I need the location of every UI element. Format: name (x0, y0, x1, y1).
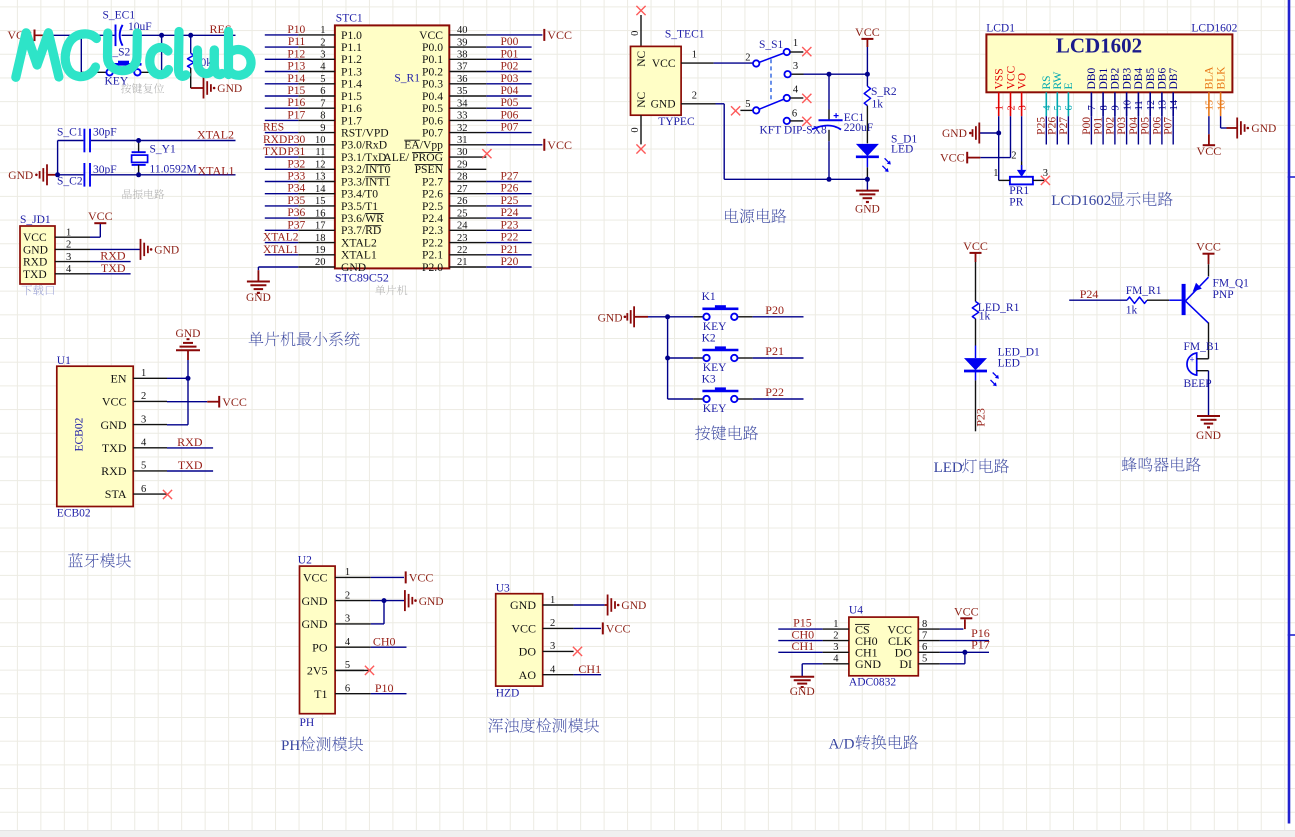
svg-text:P15: P15 (287, 85, 305, 97)
svg-text:2: 2 (833, 630, 838, 641)
svg-text:1: 1 (320, 25, 325, 36)
svg-text:P04: P04 (501, 85, 519, 97)
svg-text:U1: U1 (57, 355, 71, 367)
svg-text:PR1: PR1 (1009, 185, 1029, 197)
svg-text:TYPEC: TYPEC (658, 116, 695, 128)
svg-text:P1.4: P1.4 (341, 78, 362, 91)
svg-text:P07: P07 (1163, 117, 1175, 135)
svg-text:P06: P06 (501, 109, 519, 121)
svg-text:P1.7: P1.7 (341, 114, 362, 127)
svg-text:7: 7 (320, 98, 325, 109)
svg-text:5: 5 (320, 74, 325, 85)
svg-text:3: 3 (793, 61, 798, 72)
svg-text:P12: P12 (287, 48, 305, 60)
svg-text:GND: GND (154, 245, 179, 257)
svg-text:P3.4/T0: P3.4/T0 (341, 188, 378, 201)
svg-text:XTAL1: XTAL1 (341, 249, 377, 262)
svg-text:P2.2: P2.2 (422, 237, 443, 250)
svg-text:P0.1: P0.1 (422, 53, 443, 66)
svg-text:S_EC1: S_EC1 (103, 10, 136, 22)
svg-text:33: 33 (457, 111, 468, 122)
svg-text:RXD: RXD (101, 464, 127, 478)
svg-text:26: 26 (457, 196, 468, 207)
svg-text:36: 36 (457, 74, 468, 85)
svg-text:DB6: DB6 (1157, 68, 1169, 90)
svg-text:RST/VPD: RST/VPD (341, 127, 389, 140)
svg-text:P32: P32 (287, 158, 305, 170)
svg-text:P35: P35 (287, 195, 305, 207)
svg-text:LED: LED (998, 358, 1020, 370)
svg-text:29: 29 (457, 160, 468, 171)
svg-text:VCC: VCC (606, 622, 631, 636)
svg-text:P3.2/INT0: P3.2/INT0 (341, 163, 390, 176)
svg-text:P04: P04 (1128, 117, 1140, 135)
svg-text:P2.5: P2.5 (422, 200, 443, 213)
svg-text:FM_B1: FM_B1 (1184, 341, 1220, 353)
svg-text:18: 18 (315, 233, 326, 244)
svg-text:9: 9 (1111, 105, 1122, 110)
svg-text:1: 1 (141, 368, 146, 379)
svg-text:GND: GND (621, 600, 646, 612)
svg-text:38: 38 (457, 50, 468, 61)
svg-text:P17: P17 (971, 638, 990, 652)
svg-text:P20: P20 (765, 303, 784, 317)
svg-text:RXD: RXD (177, 435, 203, 449)
svg-text:7: 7 (1087, 105, 1098, 110)
svg-text:VCC: VCC (419, 29, 443, 42)
svg-text:BLK: BLK (1215, 66, 1227, 90)
svg-text:ALE/ PROG: ALE/ PROG (383, 151, 443, 164)
svg-text:22: 22 (457, 245, 468, 256)
svg-text:P14: P14 (287, 73, 305, 85)
svg-text:GND: GND (176, 328, 201, 340)
svg-text:LED: LED (934, 460, 963, 476)
svg-text:1: 1 (66, 227, 71, 238)
svg-text:2: 2 (692, 90, 697, 101)
svg-text:GND: GND (23, 244, 48, 256)
svg-text:1: 1 (995, 105, 1006, 110)
svg-text:P3.3/INT1: P3.3/INT1 (341, 175, 390, 188)
svg-text:DB2: DB2 (1110, 68, 1122, 90)
svg-text:17: 17 (315, 221, 326, 232)
svg-text:35: 35 (457, 86, 468, 97)
svg-text:VCC: VCC (1196, 240, 1221, 254)
svg-text:FM_R1: FM_R1 (1126, 285, 1162, 297)
svg-text:27: 27 (457, 184, 468, 195)
svg-text:P22: P22 (765, 385, 784, 399)
svg-text:GND: GND (790, 686, 815, 698)
svg-text:P2.3: P2.3 (422, 224, 443, 237)
svg-text:HZD: HZD (496, 687, 520, 699)
svg-text:RXD: RXD (263, 134, 287, 146)
svg-text:5: 5 (1053, 105, 1064, 110)
svg-text:11: 11 (1134, 100, 1145, 110)
svg-text:10: 10 (1122, 100, 1133, 111)
svg-text:VCC: VCC (102, 395, 127, 409)
svg-text:3: 3 (320, 50, 325, 61)
svg-text:P1.3: P1.3 (341, 65, 362, 78)
svg-text:XTAL2: XTAL2 (263, 232, 299, 244)
svg-text:VCC: VCC (1197, 144, 1222, 158)
svg-text:P3.1/TxD: P3.1/TxD (341, 151, 386, 164)
svg-text:VCC: VCC (409, 571, 434, 585)
svg-text:GND: GND (246, 292, 271, 304)
svg-text:P0.6: P0.6 (422, 114, 443, 127)
svg-text:2V5: 2V5 (307, 664, 328, 678)
svg-text:GND: GND (942, 128, 967, 140)
svg-text:VCC: VCC (652, 58, 676, 70)
svg-text:28: 28 (457, 172, 468, 183)
svg-text:GND: GND (1251, 123, 1276, 135)
svg-text:P2.6: P2.6 (422, 188, 443, 201)
svg-text:P1.6: P1.6 (341, 102, 362, 115)
svg-text:P20: P20 (501, 256, 519, 268)
svg-text:P10: P10 (375, 681, 394, 695)
svg-text:9: 9 (320, 123, 325, 134)
svg-text:VCC: VCC (88, 209, 113, 223)
svg-text:3: 3 (345, 614, 350, 625)
svg-text:7: 7 (922, 630, 927, 641)
svg-text:P00: P00 (1081, 117, 1093, 135)
svg-text:32: 32 (457, 123, 468, 134)
svg-text:PNP: PNP (1213, 289, 1234, 301)
svg-text:STC1: STC1 (336, 13, 363, 25)
svg-text:S_JD1: S_JD1 (20, 214, 51, 226)
svg-text:XTAL2: XTAL2 (341, 237, 377, 250)
svg-text:2: 2 (1006, 105, 1017, 110)
svg-text:3: 3 (550, 641, 555, 652)
svg-text:P1.2: P1.2 (341, 53, 362, 66)
svg-text:4: 4 (66, 264, 72, 275)
svg-text:4: 4 (141, 438, 147, 449)
svg-text:PH: PH (300, 717, 315, 729)
svg-text:GND: GND (8, 170, 33, 182)
svg-text:2: 2 (141, 391, 146, 402)
svg-text:TXD: TXD (178, 458, 203, 472)
svg-text:1: 1 (550, 595, 555, 606)
svg-text:1: 1 (692, 50, 697, 61)
svg-text:16: 16 (1216, 100, 1227, 111)
svg-text:PR: PR (1009, 197, 1023, 209)
svg-text:34: 34 (457, 98, 468, 109)
svg-text:P1.5: P1.5 (341, 90, 362, 103)
svg-text:TXD: TXD (23, 269, 47, 281)
svg-text:GND: GND (1196, 430, 1221, 442)
svg-text:S_R2: S_R2 (871, 86, 897, 98)
svg-text:8: 8 (922, 619, 927, 630)
svg-text:1k: 1k (1126, 305, 1138, 317)
svg-text:37: 37 (457, 62, 468, 73)
svg-text:2: 2 (1011, 151, 1016, 162)
svg-text:S_S1: S_S1 (759, 39, 784, 51)
svg-text:CH1: CH1 (578, 662, 601, 676)
svg-text:VCC: VCC (23, 232, 47, 244)
svg-text:P34: P34 (287, 183, 305, 195)
svg-text:P11: P11 (288, 36, 306, 48)
svg-text:K3: K3 (702, 373, 716, 385)
svg-text:P0.4: P0.4 (422, 90, 443, 103)
svg-text:CH0: CH0 (373, 634, 396, 648)
svg-text:5: 5 (345, 660, 350, 671)
svg-text:4: 4 (793, 85, 799, 96)
svg-text:P03: P03 (501, 73, 519, 85)
svg-text:VSS: VSS (994, 68, 1006, 89)
svg-text:30pF: 30pF (93, 164, 117, 176)
svg-text:CH1: CH1 (792, 639, 815, 653)
svg-text:P05: P05 (1140, 117, 1152, 135)
svg-text:P3.6/WR: P3.6/WR (341, 212, 384, 225)
svg-text:VCC: VCC (855, 25, 880, 39)
svg-text:2: 2 (320, 37, 325, 48)
svg-text:2: 2 (345, 590, 350, 601)
svg-text:5: 5 (141, 461, 146, 472)
svg-text:3: 3 (66, 252, 71, 263)
svg-text:1: 1 (793, 38, 798, 49)
svg-text:GND: GND (651, 99, 676, 111)
svg-text:XTAL2: XTAL2 (197, 128, 234, 142)
svg-text:GND: GND (101, 418, 127, 432)
svg-text:4: 4 (1042, 105, 1053, 111)
svg-text:DO: DO (519, 645, 537, 659)
svg-text:GND: GND (855, 657, 881, 671)
svg-text:ADC0832: ADC0832 (849, 677, 897, 689)
svg-text:6: 6 (320, 86, 325, 97)
svg-text:P36: P36 (287, 207, 305, 219)
svg-text:14: 14 (1169, 99, 1180, 110)
svg-text:P27: P27 (501, 171, 519, 183)
svg-text:1k: 1k (872, 99, 884, 111)
svg-text:TXD: TXD (101, 261, 126, 275)
svg-text:VCC: VCC (222, 395, 247, 409)
svg-text:S_C2: S_C2 (57, 176, 83, 188)
svg-text:19: 19 (315, 245, 326, 256)
svg-text:6: 6 (922, 642, 927, 653)
svg-text:TXD: TXD (102, 441, 127, 455)
svg-text:2: 2 (66, 240, 71, 251)
svg-text:GND: GND (855, 204, 880, 216)
svg-text:P24: P24 (1080, 287, 1099, 301)
svg-text:1k: 1k (979, 311, 991, 323)
svg-text:NC: NC (636, 91, 648, 107)
svg-text:P0.5: P0.5 (422, 102, 443, 115)
svg-text:25: 25 (457, 208, 468, 219)
svg-text:13: 13 (1158, 100, 1169, 111)
svg-text:P1.1: P1.1 (341, 41, 362, 54)
svg-text:VCC: VCC (963, 239, 988, 253)
svg-text:VCC: VCC (303, 571, 328, 585)
svg-text:E: E (1063, 82, 1075, 89)
svg-text:P01: P01 (501, 48, 519, 60)
svg-text:4: 4 (345, 637, 351, 648)
svg-text:5: 5 (745, 99, 750, 110)
svg-text:P0.7: P0.7 (422, 127, 443, 140)
svg-text:AO: AO (519, 668, 537, 682)
svg-text:1: 1 (833, 619, 838, 630)
svg-text:14: 14 (315, 184, 326, 195)
svg-text:TXD: TXD (263, 146, 287, 158)
svg-text:XTAL1: XTAL1 (198, 164, 235, 178)
svg-text:P24: P24 (501, 207, 519, 219)
svg-text:11.0592M: 11.0592M (150, 164, 197, 176)
svg-text:KEY: KEY (703, 321, 727, 333)
svg-text:RXD: RXD (23, 257, 47, 269)
svg-text:P00: P00 (501, 36, 519, 48)
svg-text:23: 23 (457, 233, 468, 244)
svg-text:GND: GND (217, 83, 242, 95)
svg-text:31: 31 (457, 135, 468, 146)
svg-text:2: 2 (550, 618, 555, 629)
svg-text:P37: P37 (287, 219, 305, 231)
svg-text:15: 15 (315, 196, 326, 207)
svg-text:KEY: KEY (703, 403, 727, 415)
svg-text:P3.5/T1: P3.5/T1 (341, 200, 378, 213)
svg-text:P01: P01 (1093, 117, 1105, 135)
svg-text:P27: P27 (1058, 117, 1070, 135)
svg-text:10: 10 (315, 135, 326, 146)
svg-text:PH: PH (281, 738, 300, 754)
svg-text:EN: EN (111, 372, 127, 386)
svg-text:P06: P06 (1151, 117, 1163, 135)
svg-text:39: 39 (457, 37, 468, 48)
svg-text:DB5: DB5 (1145, 68, 1157, 90)
svg-text:16: 16 (315, 208, 326, 219)
svg-text:P02: P02 (501, 61, 519, 73)
svg-text:DI: DI (899, 657, 912, 671)
svg-text:VCC: VCC (547, 28, 572, 42)
svg-text:GND: GND (341, 261, 366, 274)
svg-text:VCC: VCC (511, 622, 536, 636)
svg-text:DB7: DB7 (1168, 68, 1180, 90)
svg-text:P0.0: P0.0 (422, 41, 443, 54)
svg-text:+: + (1190, 355, 1195, 365)
svg-text:ECB02: ECB02 (74, 417, 86, 451)
svg-text:P1.0: P1.0 (341, 29, 362, 42)
svg-text:RES: RES (263, 122, 284, 134)
svg-text:S_Y1: S_Y1 (150, 144, 176, 156)
svg-text:40: 40 (457, 25, 468, 36)
svg-text:P07: P07 (501, 122, 519, 134)
svg-text:PO: PO (312, 640, 328, 654)
svg-text:S_R1: S_R1 (394, 72, 420, 84)
svg-text:GND: GND (510, 598, 536, 612)
svg-text:13: 13 (315, 172, 326, 183)
svg-text:4: 4 (833, 654, 839, 665)
svg-text:P2.1: P2.1 (422, 249, 443, 262)
svg-text:BLA: BLA (1204, 66, 1216, 90)
svg-text:20: 20 (315, 257, 326, 268)
svg-text:NC: NC (636, 50, 648, 66)
svg-text:6: 6 (1064, 105, 1075, 110)
svg-text:220uF: 220uF (844, 122, 873, 134)
svg-text:P03: P03 (1116, 117, 1128, 135)
svg-text:LCD1602: LCD1602 (1191, 22, 1237, 34)
svg-text:K2: K2 (702, 332, 716, 344)
svg-text:6: 6 (141, 484, 146, 495)
svg-text:P2.0: P2.0 (422, 261, 443, 274)
svg-text:ECB02: ECB02 (57, 508, 91, 520)
svg-text:P21: P21 (765, 344, 784, 358)
svg-text:15: 15 (1205, 100, 1216, 111)
svg-text:8: 8 (1099, 105, 1110, 110)
svg-text:VCC: VCC (547, 138, 572, 152)
svg-text:S_C1: S_C1 (57, 127, 83, 139)
svg-text:P02: P02 (1104, 117, 1116, 135)
svg-text:3: 3 (1043, 168, 1048, 179)
svg-text:P31: P31 (287, 146, 305, 158)
svg-text:LED: LED (891, 143, 913, 155)
svg-text:P16: P16 (287, 97, 305, 109)
svg-text:DB4: DB4 (1133, 68, 1145, 90)
svg-text:A/D: A/D (829, 736, 855, 752)
svg-text:30pF: 30pF (93, 127, 117, 139)
svg-text:GND: GND (419, 596, 444, 608)
svg-text:30: 30 (457, 147, 468, 158)
svg-text:U4: U4 (849, 604, 863, 616)
svg-text:21: 21 (457, 257, 468, 268)
svg-text:5: 5 (922, 654, 927, 665)
svg-text:KFT DIP-SX8: KFT DIP-SX8 (760, 124, 827, 136)
svg-text:24: 24 (457, 221, 468, 232)
svg-text:P3.0/RxD: P3.0/RxD (341, 139, 387, 152)
svg-text:1: 1 (345, 567, 350, 578)
svg-text:KEY: KEY (703, 362, 727, 374)
svg-text:3: 3 (141, 414, 146, 425)
svg-text:P33: P33 (287, 171, 305, 183)
svg-text:P17: P17 (287, 109, 305, 121)
svg-text:12: 12 (315, 160, 326, 171)
svg-text:U2: U2 (298, 555, 312, 567)
svg-text:VO: VO (1016, 73, 1028, 90)
svg-text:P21: P21 (501, 244, 519, 256)
svg-text:STA: STA (105, 487, 127, 501)
svg-text:4: 4 (320, 62, 326, 73)
svg-text:0: 0 (630, 31, 641, 36)
svg-text:GND: GND (302, 617, 328, 631)
svg-text:LCD1602: LCD1602 (1051, 193, 1111, 209)
svg-text:2: 2 (745, 53, 750, 64)
svg-text:4: 4 (550, 665, 556, 676)
svg-text:0: 0 (630, 127, 641, 132)
svg-text:BEEP: BEEP (1184, 378, 1212, 390)
svg-text:11: 11 (315, 147, 325, 158)
svg-text:P13: P13 (287, 61, 305, 73)
svg-text:DB0: DB0 (1086, 68, 1098, 90)
svg-text:8: 8 (320, 111, 325, 122)
svg-text:GND: GND (598, 313, 623, 325)
svg-text:3: 3 (833, 642, 838, 653)
svg-text:12: 12 (1146, 100, 1157, 111)
svg-text:P05: P05 (501, 97, 519, 109)
svg-text:P25: P25 (501, 195, 519, 207)
svg-text:P2.7: P2.7 (422, 175, 443, 188)
svg-text:VCC: VCC (940, 150, 965, 164)
svg-text:P0.3: P0.3 (422, 78, 443, 91)
svg-text:LCD1602: LCD1602 (1056, 34, 1142, 58)
svg-text:1: 1 (993, 168, 998, 179)
svg-text:P23: P23 (501, 219, 519, 231)
svg-text:6: 6 (792, 109, 797, 120)
svg-text:P30: P30 (287, 134, 305, 146)
svg-text:P26: P26 (501, 183, 519, 195)
svg-text:P23: P23 (974, 408, 988, 427)
svg-text:T1: T1 (314, 687, 327, 701)
svg-text:P10: P10 (287, 24, 305, 36)
svg-text:3: 3 (1017, 105, 1028, 110)
svg-text:U3: U3 (496, 582, 510, 594)
svg-text:DB1: DB1 (1098, 68, 1110, 90)
svg-text:6: 6 (345, 684, 350, 695)
svg-text:PSEN: PSEN (415, 163, 444, 176)
